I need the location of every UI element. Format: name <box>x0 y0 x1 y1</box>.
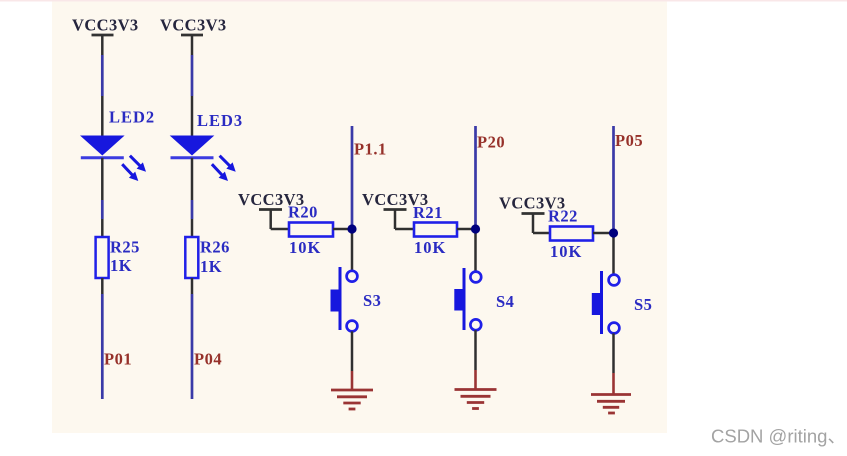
power port VCC3V3 (R22 branch) <box>499 194 566 234</box>
wire (LED2 cathode to R25) <box>101 200 104 219</box>
ground (S5) <box>591 373 631 413</box>
wire (LED3 cathode to R26) <box>191 200 194 219</box>
wire net P20 (vertical) <box>474 126 477 229</box>
svg-text:P04: P04 <box>194 350 222 369</box>
svg-text:R22: R22 <box>548 207 578 226</box>
junction (P05 / R22 / S5) <box>609 228 618 237</box>
svg-text:R26: R26 <box>200 238 230 257</box>
wire (VCC to R20) <box>271 228 289 231</box>
svg-text:10K: 10K <box>550 242 582 261</box>
svg-text:P1.1: P1.1 <box>354 140 387 159</box>
wire (junction to S3) <box>351 229 354 271</box>
wire (VCC to LED2 anode) <box>101 55 104 96</box>
resistor R20 <box>289 223 333 237</box>
power port VCC3V3 (R21 branch) <box>362 190 429 229</box>
power port VCC3V3 (R20 branch) <box>238 190 305 229</box>
svg-text:R21: R21 <box>413 203 443 222</box>
wire net P05 (vertical) <box>612 126 615 233</box>
switch S4 <box>454 268 481 330</box>
svg-text:LED3: LED3 <box>197 111 243 130</box>
wire (junction to S5) <box>612 233 615 275</box>
wire net P1.1 (vertical) <box>351 126 354 229</box>
wire (R21 to junction) <box>457 228 476 231</box>
svg-text:R20: R20 <box>288 203 318 222</box>
svg-text:10K: 10K <box>289 238 321 257</box>
wire (R22 to junction) <box>593 232 614 235</box>
ground (S4) <box>455 370 497 409</box>
wire (VCC to R21) <box>395 228 414 231</box>
junction (P1.1 / R20 / S3) <box>347 224 356 233</box>
switch S5 <box>592 271 620 334</box>
LED LED3 <box>170 96 236 200</box>
wire (R20 to junction) <box>333 228 352 231</box>
svg-text:S5: S5 <box>634 295 652 314</box>
svg-text:S3: S3 <box>363 291 381 310</box>
switch S3 <box>331 267 358 331</box>
wire (R25 to P01) <box>101 294 104 399</box>
wire (R26 to P04) <box>191 294 194 399</box>
LED LED2 <box>80 96 146 200</box>
svg-text:10K: 10K <box>414 238 446 257</box>
svg-text:S4: S4 <box>496 292 514 311</box>
svg-text:LED2: LED2 <box>109 108 155 127</box>
resistor R21 <box>414 223 457 237</box>
resistor R25 <box>96 219 109 294</box>
resistor R22 <box>550 227 593 241</box>
svg-text:VCC3V3: VCC3V3 <box>72 16 139 35</box>
svg-text:R25: R25 <box>110 238 140 257</box>
junction (P20 / R21 / S4) <box>471 224 480 233</box>
power port VCC3V3 (LED2 branch) <box>72 16 139 56</box>
wire (S3 to ground) <box>351 331 354 371</box>
power port VCC3V3 (LED3 branch) <box>160 16 227 56</box>
wire (S5 to ground) <box>612 333 615 373</box>
wire (VCC to R22) <box>533 232 550 235</box>
resistor R26 <box>185 219 198 294</box>
svg-text:P20: P20 <box>477 133 505 152</box>
wire (VCC to LED3 anode) <box>191 55 194 96</box>
svg-text:CSDN @riting、: CSDN @riting、 <box>711 426 846 447</box>
svg-text:P05: P05 <box>615 131 643 150</box>
wire (junction to S4) <box>474 229 477 272</box>
ground (S3) <box>331 371 373 409</box>
svg-text:1K: 1K <box>200 257 222 276</box>
svg-text:1K: 1K <box>110 256 132 275</box>
wire (S4 to ground) <box>474 330 477 370</box>
svg-text:VCC3V3: VCC3V3 <box>160 16 227 35</box>
svg-text:P01: P01 <box>104 350 132 369</box>
